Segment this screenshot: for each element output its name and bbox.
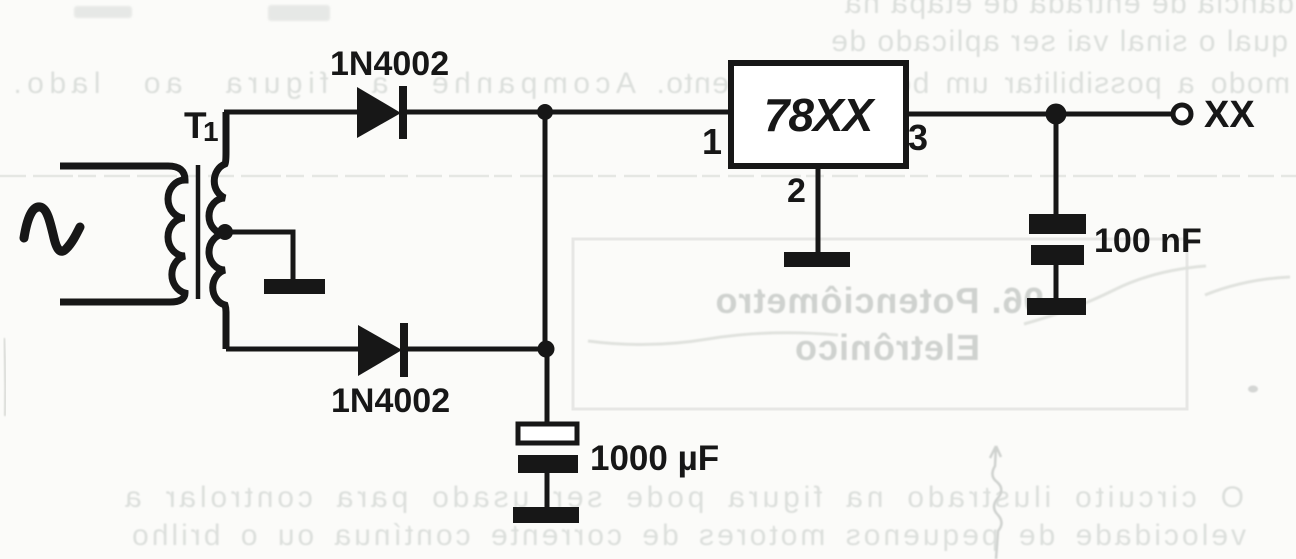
diode D1 cathode bar bbox=[399, 86, 407, 139]
svg-text:Acompanhe a figura ao lado.: Acompanhe a figura ao lado. bbox=[8, 67, 636, 100]
svg-text:3: 3 bbox=[908, 117, 928, 158]
wire: node C down to C2 bbox=[1054, 114, 1059, 215]
wire: C2 bottom to ground bbox=[1054, 264, 1059, 300]
node C junction dot bbox=[1046, 104, 1067, 125]
wire: node C to output terminal bbox=[1056, 112, 1172, 117]
wire: C1 bottom to ground bbox=[545, 472, 550, 510]
svg-text:2: 2 bbox=[787, 172, 806, 210]
crease mark mid bbox=[588, 333, 838, 345]
ghost figure box outline bbox=[573, 239, 1187, 409]
wire: 78XX pin2 down bbox=[816, 166, 821, 256]
svg-text:1000 µF: 1000 µF bbox=[590, 439, 719, 478]
svg-text:dância de entrada de etapa na: dância de entrada de etapa na bbox=[843, 0, 1294, 20]
wire: 78XX pin3 to node C bbox=[906, 112, 1056, 117]
node A junction dot bbox=[537, 104, 553, 120]
svg-text:78XX: 78XX bbox=[764, 89, 876, 141]
transformer core bbox=[196, 165, 201, 299]
transformer T1 primary winding bbox=[60, 166, 185, 302]
wire: top rail D1 cathode to node A bbox=[405, 110, 548, 115]
svg-text:1: 1 bbox=[203, 116, 219, 147]
capacitor C2 lower plate bbox=[1031, 245, 1084, 265]
faint smudge top-left 2 bbox=[268, 5, 330, 21]
svg-text:O circuito ilustrado na figura: O circuito ilustrado na figura pode ser … bbox=[121, 481, 1244, 514]
diode D2 triangle bbox=[358, 325, 402, 376]
ground bar: center tap bbox=[264, 279, 325, 294]
ground bar: C2 bbox=[1027, 298, 1086, 315]
ground bar: 78XX pin2 bbox=[784, 252, 850, 267]
AC source symbol bbox=[24, 207, 80, 251]
left edge crease bbox=[4, 338, 5, 416]
wire: node B down to C1 bbox=[545, 349, 550, 426]
svg-text:XX: XX bbox=[1204, 94, 1255, 136]
node: center tap junction dot bbox=[217, 224, 233, 240]
capacitor C1 1000uF lower plate bbox=[518, 455, 578, 473]
regulator U1 78XX box bbox=[731, 63, 906, 166]
wire: node A to 78XX pin1 bbox=[545, 110, 731, 115]
wire: bottom rail (secondary bottom to diode D2) bbox=[226, 347, 362, 352]
pen doodle bottom right bbox=[990, 446, 1002, 559]
faint smudge top-left 1 bbox=[74, 6, 132, 18]
capacitor C1 1000uF upper plate (hollow) bbox=[518, 424, 577, 443]
wire: vertical node A down to node B bbox=[543, 112, 548, 349]
wire: center tap to ground bbox=[226, 232, 293, 280]
svg-text:100 nF: 100 nF bbox=[1094, 222, 1202, 260]
faint horizontal rule y=176 bbox=[0, 175, 1296, 178]
svg-text:velocidade de pequenos motores: velocidade de pequenos motores de corren… bbox=[129, 519, 1246, 552]
svg-text:1N4002: 1N4002 bbox=[331, 382, 450, 420]
svg-text:1N4002: 1N4002 bbox=[330, 45, 449, 83]
wire: D2 cathode to node B bbox=[406, 347, 547, 352]
crease mark right bbox=[1024, 266, 1290, 324]
node B junction dot bbox=[538, 341, 555, 358]
svg-text:1: 1 bbox=[702, 121, 722, 162]
wire: top rail left (secondary top to diode D1) bbox=[224, 110, 360, 115]
label T1 bbox=[184, 105, 219, 147]
transformer T1 secondary winding bbox=[209, 112, 226, 349]
diode D1 triangle bbox=[357, 87, 401, 138]
capacitor C2 100nF upper plate bbox=[1029, 214, 1086, 234]
gray dot artifact bbox=[1248, 386, 1258, 393]
diode D2 cathode bar bbox=[400, 323, 408, 377]
ground bar: C1 bbox=[513, 507, 579, 523]
svg-text:qual o sinal vai ser aplicado: qual o sinal vai ser aplicado de bbox=[830, 25, 1288, 58]
output terminal circle bbox=[1173, 105, 1191, 123]
svg-text:96. Potenciômetro: 96. Potenciômetro bbox=[714, 280, 1043, 321]
